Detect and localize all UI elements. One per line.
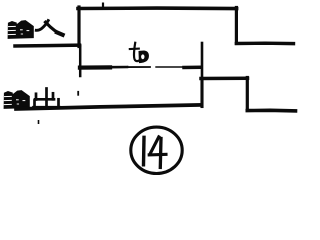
label tD : subscript D <box>139 51 148 62</box>
input waveform: high segment <box>78 6 237 10</box>
dimension line right thick smudge (arrow) <box>184 66 201 70</box>
stray tick below output line <box>38 121 40 123</box>
dimension right extension tick <box>201 43 204 76</box>
dimension line tD (thin base) <box>80 66 151 68</box>
output waveform: high segment <box>201 76 248 80</box>
output waveform: rising edge <box>200 79 203 107</box>
input waveform: low segment left <box>15 43 80 47</box>
label 输入 (input) : char 输 dense blob <box>8 21 33 39</box>
output waveform: low segment left <box>16 105 201 109</box>
stray dot below left tick <box>77 92 79 95</box>
dimension line mid smudge <box>110 66 127 69</box>
label 输出 (output) : char 输 dense blob <box>4 91 29 109</box>
input waveform: rising edge <box>77 7 80 47</box>
small tick above input high line <box>102 4 104 7</box>
label tD : letter t <box>130 43 139 61</box>
label 输入 (input) : char 入 <box>36 21 62 35</box>
label 输出 (output) : char 出 <box>34 89 60 108</box>
dimension left extension tick <box>79 46 82 77</box>
output waveform: falling edge <box>246 78 249 111</box>
figure number digit 1 <box>142 137 146 165</box>
figure number digit 4 <box>149 137 166 168</box>
figure number circle <box>131 127 182 173</box>
input waveform: falling edge <box>235 8 238 44</box>
dimension line left thick smudge (arrow) <box>80 65 110 69</box>
output waveform: low segment right <box>247 109 295 113</box>
input waveform: low segment right <box>236 42 293 46</box>
